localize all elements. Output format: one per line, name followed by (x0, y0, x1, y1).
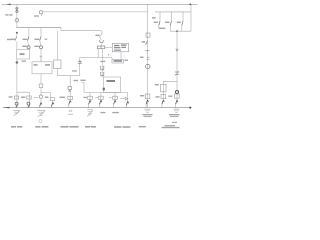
node dot feeder1 (16, 32, 18, 34)
wire service drop (16, 4, 18, 27)
node arrow rail left (3, 107, 9, 109)
label inside K1 (20, 53, 25, 55)
wire S-curve lead (100, 31, 102, 40)
label above jog (72, 70, 77, 71)
terminal box TB1 (97, 46, 104, 49)
arrow F127 (126, 102, 128, 106)
label in PLC row3 (114, 50, 121, 51)
label right of blob (22, 61, 27, 62)
label F127 (120, 98, 125, 100)
wire to panel (40, 49, 42, 56)
faint ring under F41 stack (39, 120, 42, 123)
contact F163 (161, 95, 166, 99)
switch S3 (145, 50, 150, 52)
wire panel out (40, 74, 42, 84)
label S4 (140, 57, 144, 58)
label L2 (34, 46, 39, 47)
wire panel branch (41, 88, 51, 98)
lamp F16 (15, 102, 18, 105)
arrow F90 (89, 100, 91, 104)
label L1 (22, 46, 27, 47)
meter M1 (15, 19, 19, 23)
wire jog to x70 (58, 69, 70, 87)
wire feeder3 drop (40, 28, 42, 37)
wire link to PLC (105, 46, 113, 48)
breaker CB1 (15, 37, 17, 41)
wire feeder2 drop (28, 28, 30, 37)
contact F127 (125, 97, 128, 100)
wire coil chain (101, 58, 103, 78)
label right of note (124, 60, 128, 61)
label under rdrop1 (159, 28, 165, 29)
feeder F101 wire (100, 93, 102, 101)
label F115 (109, 97, 112, 99)
fuse FX marks (78, 60, 82, 64)
contact F115 (113, 96, 118, 99)
label bottom row 4 (85, 126, 90, 127)
node blob right (175, 90, 178, 93)
feeder F90 wire (89, 93, 91, 101)
lamp L2 (39, 41, 42, 46)
box M3 meter (54, 60, 62, 69)
wire note stub (111, 58, 113, 60)
label under F176 (169, 114, 180, 115)
breaker CB5 (159, 21, 160, 26)
label bottom row 2 (35, 126, 40, 127)
feeder F16 wire (16, 92, 18, 107)
wire branch left (163, 81, 177, 94)
label in RELAY (107, 80, 116, 82)
label under F148 (143, 114, 153, 115)
label F148 (140, 95, 144, 96)
label F16 (9, 96, 13, 97)
load sym F70 (68, 110, 73, 114)
arrow F148 (146, 100, 148, 104)
breaker CB7 (182, 21, 183, 26)
label F41 dash (34, 96, 39, 98)
label under tee (81, 80, 86, 81)
wire PLC to note (120, 52, 122, 60)
label bottom row 1 (11, 126, 16, 127)
label CB5 (154, 22, 158, 23)
node J1 junction dot (189, 4, 191, 6)
arrow F115 (114, 100, 116, 104)
wire tee to feeder70 (70, 75, 80, 77)
feeder F29 wire (28, 96, 30, 108)
wire CT stub (101, 44, 103, 46)
wire M2 tail (40, 14, 42, 16)
label F163 (156, 96, 160, 97)
label F90 (83, 97, 87, 98)
label CB1 right (11, 39, 15, 40)
load sym F176 (174, 109, 180, 112)
arrow F176 (176, 100, 178, 104)
feeder F115 wire (114, 93, 116, 101)
wire top rail (2, 3, 198, 5)
label in PANEL1 right (45, 64, 50, 65)
feeder F176 wire (176, 94, 178, 100)
bottom rail (3, 107, 191, 109)
label bottom row 3 (61, 126, 69, 127)
label in PLC row2 (114, 47, 120, 48)
arrow F53 (51, 102, 53, 106)
disconnect D1 (146, 33, 150, 37)
label F41 right (45, 97, 49, 98)
label F29 (21, 97, 25, 98)
wire B2 to rail (190, 4, 192, 11)
feeder F41 wire (40, 99, 42, 103)
node chevron on drop (176, 49, 178, 51)
label under F101 (100, 112, 105, 113)
label left tick (108, 54, 109, 55)
load sym F148 (145, 109, 151, 112)
wire rdrop1 (159, 12, 161, 21)
wire parallel pair (98, 49, 102, 58)
box XFMR label (161, 84, 166, 92)
box K1 (17, 50, 30, 60)
label fuse rating (6, 14, 9, 15)
label bottom row 7 (165, 125, 176, 126)
fuse F1 (15, 8, 18, 12)
breaker CB2 (28, 37, 29, 41)
slash F29 (28, 105, 30, 107)
wire x84 riser (81, 83, 84, 93)
wire right main drop (176, 31, 178, 94)
feeder F16 box (14, 96, 18, 99)
slash F16 (16, 105, 18, 107)
wire feeder1 drop (16, 34, 18, 37)
label F70 left (60, 97, 66, 98)
breaker CB6 (170, 21, 171, 26)
box PANEL1 (32, 62, 52, 74)
feeder F70 wire (69, 92, 71, 100)
label under M2 (34, 15, 39, 16)
arrow F163 (162, 100, 164, 104)
contactor C1 (39, 84, 43, 88)
contact F53 (50, 98, 55, 101)
box note label (112, 60, 124, 64)
bus B4 bottom mid (84, 92, 128, 94)
wire mid rail (43, 11, 148, 13)
breaker CB3 (40, 37, 41, 41)
meter M2 (39, 11, 42, 14)
label annotation (96, 35, 100, 37)
switch S4 (147, 57, 150, 59)
label F176 (168, 96, 172, 97)
node arrow incoming feed (6, 4, 10, 6)
arrow F101 (100, 100, 102, 104)
wire K1 out (16, 59, 18, 92)
disconnect bars (175, 71, 180, 75)
node rail right dot (189, 107, 191, 109)
label bottom row 6 (139, 126, 146, 127)
feeder F163 wire (162, 95, 164, 101)
coil U1 (100, 66, 104, 70)
contact F176 (175, 94, 180, 98)
motor MTR1 (146, 64, 150, 68)
breaker CB4 (146, 41, 148, 45)
label CB3 (35, 39, 40, 40)
coil U2 (100, 72, 104, 76)
node ground blob (16, 61, 19, 64)
label CB2 (23, 39, 28, 40)
contact F70 (68, 96, 73, 99)
wire bus step (61, 28, 101, 31)
label CB6 (165, 22, 169, 23)
bus B3 merge (170, 12, 191, 31)
label under F115 (112, 112, 119, 113)
label in PANEL1 left (34, 64, 38, 65)
label in PLC row1 (114, 45, 119, 46)
label right top (152, 17, 156, 18)
contact F41 (39, 95, 42, 98)
lamp L1 (27, 41, 30, 46)
label CB4 (142, 41, 145, 43)
ground stack F41 (37, 110, 45, 117)
lamp F29 (27, 102, 30, 105)
feeder F53 wire (52, 100, 54, 102)
wire rdrop3 (182, 12, 184, 21)
label CB7 (177, 22, 181, 23)
arrow F70 (69, 101, 71, 105)
switch S1 (40, 56, 43, 61)
label mid column (100, 61, 105, 62)
label small above (172, 122, 177, 123)
arrow F41 (40, 103, 42, 107)
label F101 (95, 97, 98, 99)
wire x79.7 drop (79, 58, 81, 76)
label CB1 left (7, 39, 12, 40)
wire left box edge drop (57, 31, 59, 60)
ground stack F16 (13, 110, 20, 116)
fuse F70 box (68, 87, 71, 90)
node dot B3 (176, 30, 178, 32)
wire x147 main drop (147, 4, 149, 107)
contact F148 (145, 94, 150, 99)
wire bottom jog left (17, 92, 29, 96)
contact F90 (88, 96, 93, 99)
bus B1 (16, 27, 61, 29)
load sym F90 (87, 110, 93, 117)
bus B2 right (155, 11, 191, 13)
feeder F127 wire (127, 93, 129, 102)
feeder F29 box (27, 96, 31, 99)
box PLC big (112, 43, 128, 51)
contact F101 (99, 96, 104, 99)
label left of XFMR (155, 84, 159, 85)
label bottom row 5 (114, 126, 122, 127)
label in note (114, 60, 123, 62)
wire lower link (80, 57, 112, 59)
CT loop (100, 40, 104, 43)
node small blob (103, 88, 105, 91)
box RELAY (104, 77, 121, 93)
wire rdrop2 (171, 12, 173, 21)
label near x84 left (74, 80, 79, 81)
